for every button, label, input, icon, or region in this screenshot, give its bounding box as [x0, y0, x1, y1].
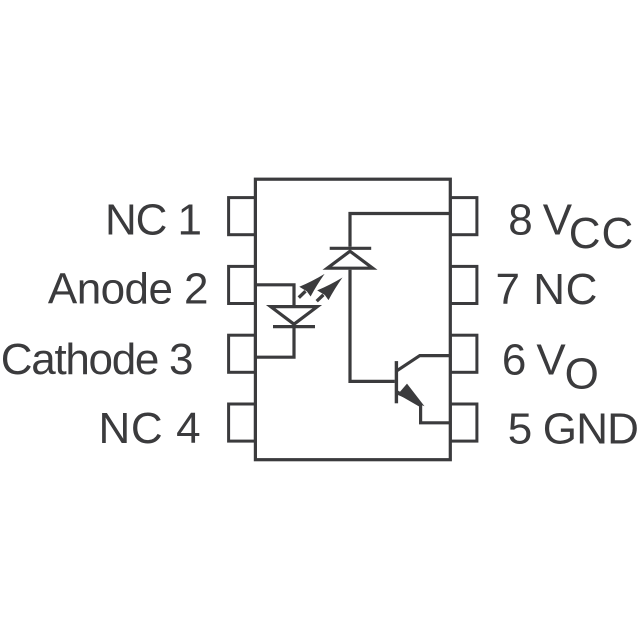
svg-text:NC 1: NC 1: [105, 195, 201, 244]
svg-text:NC 4: NC 4: [99, 404, 202, 453]
svg-text:7 NC: 7 NC: [496, 265, 598, 314]
svg-text:Cathode 3: Cathode 3: [1, 335, 192, 384]
svg-text:5 GND: 5 GND: [508, 405, 638, 454]
svg-text:Anode 2: Anode 2: [48, 265, 208, 314]
